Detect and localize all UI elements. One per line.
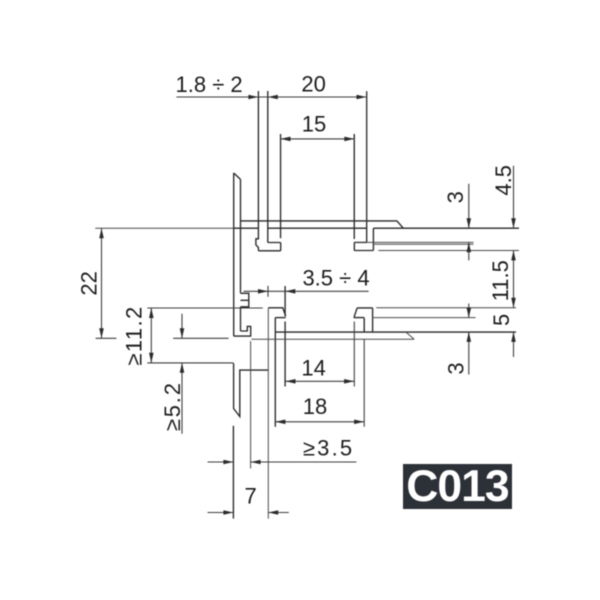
svg-text:≥11.2: ≥11.2 — [122, 305, 147, 365]
upper plate top surface with chamfer — [241, 221, 404, 228]
svg-text:3: 3 — [443, 191, 468, 203]
upper right hook lip — [353, 134, 355, 251]
panel bar right edge — [240, 179, 242, 293]
panel bar top break chamfer — [234, 173, 241, 179]
svg-text:14: 14 — [301, 356, 325, 381]
arrows top row — [248, 95, 258, 100]
arrows 15 — [281, 137, 291, 142]
upper right stem — [367, 91, 374, 250]
panel bar right edge lower — [240, 307, 242, 331]
dim 22 — [96, 228, 117, 338]
dim 11.5 — [513, 250, 515, 307]
arrow 4.5 — [511, 218, 516, 228]
dim 18 — [275, 339, 364, 427]
lower piece stem right / leg line b — [274, 318, 276, 427]
upper left hook foot — [258, 243, 280, 251]
svg-text:3.5 ÷ 4: 3.5 ÷ 4 — [302, 266, 369, 291]
ext 3.5/4 left — [267, 286, 269, 297]
arrows 7 — [223, 510, 233, 515]
lower right stem — [364, 308, 372, 332]
upper wall right edge — [267, 91, 269, 243]
lower left hook foot top — [268, 308, 285, 317]
svg-text:≥3.5: ≥3.5 — [303, 436, 354, 461]
upper right hook foot — [354, 242, 373, 250]
arrows 5.2 — [180, 328, 185, 338]
lower piece stem-leg line — [267, 308, 269, 519]
upper plate bottom line — [234, 227, 519, 229]
dim line 3.5/4 — [244, 290, 369, 292]
svg-text:15: 15 — [302, 112, 326, 137]
arrows 11.5 — [511, 250, 516, 260]
lower right thin flange top — [376, 307, 516, 309]
svg-text:20: 20 — [301, 72, 325, 97]
panel lug A — [241, 293, 249, 307]
svg-text:11.5: 11.5 — [488, 260, 513, 301]
svg-text:22: 22 — [76, 271, 101, 295]
lower piece leg line a — [250, 341, 252, 469]
svg-text:C013: C013 — [406, 462, 509, 511]
dim 3.5 bottom — [208, 461, 357, 463]
svg-text:5: 5 — [489, 314, 514, 326]
svg-text:4.5: 4.5 — [491, 165, 516, 196]
arrows 11.2 — [149, 308, 154, 318]
dim 5.2 — [173, 314, 229, 434]
svg-text:18: 18 — [303, 394, 327, 419]
dim 14 — [286, 322, 355, 387]
C013 label box — [403, 464, 512, 509]
dim line 15 — [281, 138, 355, 140]
lower flange line — [373, 317, 475, 319]
lower plate top — [275, 331, 516, 333]
svg-text:3: 3 — [444, 362, 469, 374]
panel thin leg with break tip — [234, 363, 269, 416]
svg-text:1.8 ÷ 2: 1.8 ÷ 2 — [176, 72, 243, 97]
arrows 14 — [286, 379, 296, 384]
svg-text:7: 7 — [244, 484, 256, 509]
dim 4.5 — [513, 166, 515, 228]
dim 11.2 — [147, 308, 262, 363]
lower plate bottom with chamfer — [252, 332, 415, 339]
arrows 22 — [99, 228, 104, 238]
arrows 3 top right — [467, 218, 472, 228]
dim line 1.8/2 and 20 — [176, 96, 366, 98]
upper right flange double lines — [354, 242, 473, 244]
lower right hook foot — [354, 308, 372, 318]
arrows 18 — [275, 420, 285, 425]
arrows 3 bottom right — [467, 308, 472, 318]
ext 20 right — [366, 91, 368, 222]
arrows 3.5/4 — [258, 289, 268, 294]
lower left hook lip line — [284, 286, 286, 387]
arrows 3.5 bottom — [223, 460, 233, 465]
dim 7 — [208, 512, 289, 514]
upper right thin flange bottom — [378, 250, 519, 252]
dim 3 bottom right — [468, 304, 470, 375]
lower left hook foot bottom — [275, 317, 285, 319]
panel leg lower segment — [232, 426, 234, 519]
upper plate bottom ext line — [95, 227, 234, 229]
dim 3 top right — [468, 184, 470, 261]
upper left hook lip — [280, 134, 282, 251]
panel bottom fold hook — [234, 326, 251, 336]
dim 5 — [513, 332, 515, 357]
panel bar left edge — [233, 173, 235, 336]
svg-text:≥5.2: ≥5.2 — [160, 381, 185, 431]
upper wall left edge with notch — [256, 91, 259, 251]
arrow 5 — [511, 332, 516, 342]
